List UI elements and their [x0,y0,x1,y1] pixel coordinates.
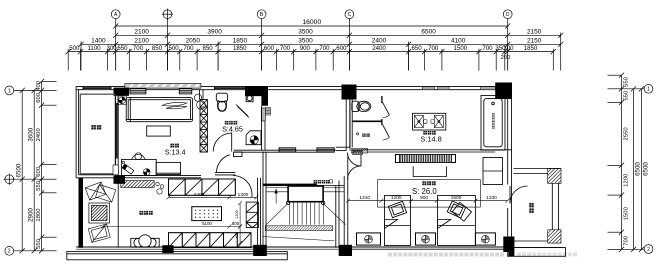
wc west wall [350,97,352,147]
svg-text:3500: 3500 [298,38,313,45]
svg-text:1200: 1200 [391,195,402,201]
terrace east railing [552,183,558,230]
column S1 [162,245,173,253]
svg-text:1500: 1500 [451,195,462,201]
svg-text:1: 1 [647,87,650,93]
svg-text:2050: 2050 [186,38,201,45]
bath1 east wall [262,106,265,151]
svg-text:2400: 2400 [36,128,42,142]
grid bubble B [257,10,266,19]
column balcony bottom [114,176,126,184]
watermark text band [388,253,392,257]
svg-text:S:4.65: S:4.65 [222,125,243,134]
bedroom-closet wall [115,176,201,178]
nightstand 1 [357,233,381,245]
grid bubble 2 (right) [622,245,653,254]
svg-text:500: 500 [69,45,80,52]
bedroom label [170,144,174,148]
survey target near column A [118,96,127,105]
shower screen diagonal [236,105,249,118]
closet dim line 2400/1300 [167,195,259,199]
bedroom door arcs [348,153,362,180]
svg-text:1400: 1400 [91,38,106,45]
svg-text:S:13.4: S:13.4 [165,148,186,157]
bath1 label [225,121,229,125]
grid bubble 2 (left) [5,246,42,255]
wc mat hatched [352,148,368,153]
terrace north railing [514,169,562,174]
closet side cabinet [246,202,258,228]
window sill gray 2 [438,87,450,90]
vanity double sink [413,113,446,130]
svg-text:2900: 2900 [27,208,34,222]
left dim chain lines [20,79,57,254]
hatched table [89,203,110,223]
right dim chain lines [608,73,645,253]
bench bracket [413,166,446,176]
nightstand 2 [416,233,436,245]
corridor window box 1 [279,148,296,152]
svg-text:3500: 3500 [298,29,313,36]
wardrobe ladder strip [200,100,207,153]
svg-text:C: C [348,12,352,18]
grid bubble C [345,10,354,19]
svg-text:6500: 6500 [421,29,436,36]
bathtub label [492,113,495,116]
column B (L-shape) [245,86,268,106]
top exterior wall [76,86,512,89]
grid line verticals A,+,B,C,D [116,19,508,71]
desk chair [132,153,145,160]
balcony inner floor edge [80,94,115,174]
south exterior wall [76,247,512,249]
closet label 衣帽间 [139,211,143,215]
stair landing box [288,186,323,202]
corridor radiator stripes [265,108,270,116]
stair door label [314,180,317,183]
master bedroom dim line [346,199,510,203]
bedroom east wall lower [507,208,509,237]
svg-text:S: 26.0: S: 26.0 [412,187,437,196]
svg-text:1100: 1100 [87,45,101,52]
terrace SE corner block [548,230,561,243]
svg-text:900: 900 [300,45,311,52]
svg-text:700: 700 [428,45,439,52]
corridor window box 2 [317,148,334,152]
wc east wall [381,96,383,125]
grid bubble 1 (left) [5,86,42,95]
svg-text:700: 700 [482,45,493,52]
svg-text:2100: 2100 [134,38,149,45]
lounge chair 2 [96,185,116,203]
svg-text:1850: 1850 [233,45,247,52]
window sill gray 1 [422,87,434,90]
bedroom door threshold [352,149,363,151]
balcony-bedroom wall [115,90,118,178]
bedroom east wall upper [508,99,512,248]
svg-text:300: 300 [503,45,514,52]
svg-text:650: 650 [117,45,128,52]
toilet 2 bowl [357,101,371,111]
svg-text:700: 700 [280,45,291,52]
corridor east wall [336,97,350,151]
svg-text:600: 600 [264,45,275,52]
svg-text:600: 600 [36,92,42,103]
svg-text:1300: 1300 [238,192,249,198]
balcony bottom wall [76,175,118,178]
grid bubble 1 (right) [622,84,653,93]
svg-text:550: 550 [624,76,630,87]
bath2 label [423,131,427,135]
balcony window [115,103,118,159]
terrace lower strip [508,248,566,257]
balcony label 阳台 [91,125,95,129]
svg-text:2100: 2100 [134,29,149,36]
grid bubble + (top) [162,9,173,20]
stair upper flight steps [266,188,344,192]
svg-text:2150: 2150 [527,38,542,45]
svg-text:1: 1 [8,88,11,94]
dim row2 2100/3900/3500/6500/2150 [113,33,563,38]
terrace label 露台 [529,203,533,207]
corridor south wall [234,150,336,152]
shower drain target [250,136,258,144]
svg-text:3600: 3600 [27,127,34,141]
closet dresser hatched [121,181,154,188]
closet east wall [258,178,261,248]
svg-text:650: 650 [412,45,423,52]
column S3 [339,245,352,256]
svg-text:6500: 6500 [642,162,649,176]
stair newel right [321,201,324,204]
column A [114,88,130,96]
left zone east wall [117,178,119,248]
svg-text:1500: 1500 [454,45,468,52]
closet wardrobe bottom [169,233,252,248]
terrace NE corner block [548,169,561,184]
column S2 [253,245,267,256]
wc door leaf 2 [383,124,390,140]
svg-text:800: 800 [232,221,240,226]
grid bubble D [503,10,512,19]
lounge chair 3 [88,224,110,242]
svg-text:5100: 5100 [202,221,212,226]
svg-text:S:14.8: S:14.8 [420,134,441,143]
window top wall 2 [215,86,247,89]
balcony left exterior wall [76,86,79,177]
stair tread bar hatched [265,226,333,231]
dim row3 1400/2100/2050/1850/3500/2400/4100/2150 [78,33,563,71]
terrace door arc [510,186,528,204]
bath1 door leaf+arc [213,133,232,152]
corner basin (bath1) [246,95,253,102]
toilet bowl (bath1) [217,101,226,112]
column C [342,85,357,100]
svg-text:850: 850 [203,45,214,52]
stair up arrow [274,189,277,204]
bathtub [481,96,505,151]
bed canopy rect [378,180,481,208]
svg-text:6500: 6500 [634,162,641,176]
svg-text:1330: 1330 [486,195,497,201]
svg-text:1800: 1800 [36,208,42,222]
svg-text:2400: 2400 [372,45,386,52]
window sill gray 3 [481,87,496,90]
svg-text:2550: 2550 [624,127,630,141]
bedroom door mat [353,151,363,154]
lounge chair 1 [85,182,105,200]
dim row1 16000 [113,23,510,28]
svg-text:1850: 1850 [233,38,248,45]
svg-text:700: 700 [319,45,330,52]
master bed 2 [438,196,476,246]
svg-text:2400: 2400 [372,38,387,45]
window sill block right [179,89,192,94]
svg-text:4100: 4100 [451,38,466,45]
svg-text:600: 600 [336,45,347,52]
south balcony strip [67,252,287,260]
svg-text:700: 700 [133,45,144,52]
closet hooks circles [156,182,164,194]
svg-text:3900: 3900 [207,29,222,36]
toilet tank (bath1) [216,93,227,101]
balcony door threshold [113,165,118,175]
svg-text:500: 500 [169,45,180,52]
grid bubble + (left) [4,174,42,185]
column D [495,83,512,100]
column S4 (SE corner) [503,237,514,257]
stair inner east wall [336,181,339,248]
bath2 south wall [362,150,512,152]
master bed 1 [385,196,411,246]
svg-text:600: 600 [36,166,42,177]
grid bubble A [111,10,120,19]
stair slope line [262,237,334,241]
desk [121,159,180,175]
terrace south railing [514,241,564,248]
stair west wall [263,152,266,248]
svg-text:300: 300 [107,45,118,52]
window sill block left [130,89,146,94]
svg-text:550: 550 [624,90,630,101]
closet wardrobe top [169,179,236,195]
rug (bedroom 13.4) [147,126,171,136]
svg-text:2400: 2400 [194,192,205,198]
shower pan [246,131,261,145]
radiator bench [396,155,456,163]
bedroom cabinet [483,158,503,185]
svg-text:1200: 1200 [624,173,630,187]
wc door leaf 1 [383,102,390,118]
desk monitor [122,164,134,174]
stair hall door [215,152,242,175]
dim row4 fine chain [66,49,556,71]
bed quilt leaves [162,103,187,109]
svg-text:2: 2 [647,247,650,253]
svg-text:6500: 6500 [15,163,22,177]
bay window hatched band [125,83,201,88]
washing machine [357,133,359,135]
left zone west wall (thick) [79,178,84,248]
settee with round table [131,235,159,247]
bedroom west wall [344,155,348,248]
pipe shaft [261,108,265,121]
svg-text:16000: 16000 [302,19,321,26]
closet rug dotted [192,207,222,221]
svg-text:850: 850 [152,45,163,52]
svg-text:550: 550 [36,238,42,249]
bedside circles [194,94,205,109]
svg-text:1850: 1850 [524,45,538,52]
bed (bedroom 13.4) [126,98,192,122]
svg-text:1310: 1310 [359,195,370,201]
wc partition wall [352,120,382,122]
toilet 2 tank [352,101,360,111]
svg-text:700: 700 [624,235,630,246]
svg-text:1200: 1200 [235,210,239,218]
closet door arc [233,176,252,198]
svg-text:2150: 2150 [527,29,542,36]
stair treads [289,202,323,225]
svg-text:550: 550 [36,180,42,191]
svg-text:2: 2 [8,249,11,255]
svg-text:200: 200 [501,55,511,61]
svg-text:1500: 1500 [624,206,630,220]
nightstand 3 [475,233,495,245]
stair newel left [286,201,289,204]
svg-text:600: 600 [235,232,239,238]
svg-text:400: 400 [36,80,42,91]
svg-text:D: D [506,12,510,18]
master bedroom label [422,181,426,185]
stair fan diagonals [266,203,345,224]
window top wall 1 [83,86,111,89]
wall above ladder strip [200,90,204,100]
svg-text:700: 700 [183,45,194,52]
closet dim line 5100/800 [101,224,242,228]
survey target on desk [122,161,150,175]
closet vertical dim 1200/600 [238,201,242,245]
stair landing slab [263,184,317,186]
